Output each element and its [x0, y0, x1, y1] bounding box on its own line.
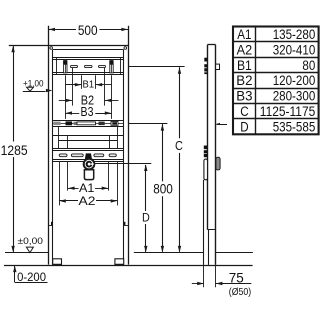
dimension C top extension: [128, 66, 184, 68]
svg-text:120-200: 120-200: [273, 73, 316, 88]
frame left upright outer line: [48, 26, 50, 265]
bolt centre extension line right (B3): [111, 75, 113, 119]
drain rail top lines: [53, 148, 124, 150]
fixing bolt right head: [109, 60, 113, 64]
crossbar black slot a: [53, 122, 60, 126]
B2 extension line left: [72, 68, 74, 106]
fixing bolt left head: [63, 60, 67, 64]
level mark +1,00 line: [23, 91, 46, 93]
dimension B3 line: [65, 113, 79, 115]
svg-text:75: 75: [229, 270, 244, 285]
frame top-left corner hole: [50, 47, 53, 50]
crossbar black slot c: [99, 122, 105, 126]
drain level line: [95, 163, 151, 165]
svg-text:1125-1175: 1125-1175: [260, 104, 316, 119]
dimension 500 line: [48, 29, 76, 31]
washbasin rail top lines: [53, 57, 124, 59]
dimension B1 arrows: [75, 83, 82, 86]
crossbar slot box outline: [111, 122, 118, 126]
frame top crossbar inner line: [53, 49, 124, 51]
table row lines: [233, 41, 319, 43]
svg-text:C: C: [175, 139, 183, 153]
svg-text:A2: A2: [79, 194, 96, 208]
left foot plate: [53, 259, 62, 265]
svg-text:D: D: [142, 210, 150, 224]
frame right upright inner line: [123, 50, 125, 265]
svg-text:D: D: [240, 120, 249, 135]
svg-text:500: 500: [78, 23, 98, 38]
svg-text:80: 80: [302, 58, 315, 73]
svg-text:C: C: [240, 104, 249, 119]
right strut lines: [117, 126, 119, 148]
right foot plate: [115, 259, 124, 265]
dimension 1285 arrows: [11, 46, 14, 53]
drain socket outer ring: [84, 159, 95, 170]
svg-text:535-585: 535-585: [273, 120, 316, 135]
side wall arm stub: [217, 124, 228, 126]
left hanger strap: [67, 135, 69, 148]
svg-text:280-300: 280-300: [273, 89, 316, 104]
svg-text:±0,00: ±0,00: [18, 236, 44, 247]
dimension 800 arrows: [161, 124, 164, 131]
flush bracket crossbar top line: [53, 120, 124, 122]
dimension B1 line: [65, 84, 81, 86]
crossbar black slot d: [112, 122, 117, 124]
svg-text:800: 800: [153, 182, 173, 197]
side rail left edge: [207, 45, 209, 230]
dimension 75 arrows: [197, 282, 204, 285]
dimension C arrows: [178, 67, 181, 74]
rail slot 1: [71, 65, 78, 67]
finished floor line segments: [5, 252, 48, 254]
rail slot 3: [99, 65, 106, 67]
side drain elbow: [216, 157, 220, 170]
dimension 75 extension lines: [203, 265, 205, 287]
fixing bolt right shaft: [110, 64, 113, 73]
drain rail slot 3: [94, 154, 104, 157]
frame right upright outer line: [128, 26, 130, 265]
dimension D line: [145, 165, 147, 211]
floor range 0-200 leader: [14, 266, 16, 283]
side upper right tab: [216, 64, 220, 69]
table column separator: [255, 27, 257, 135]
frame left upright inner line: [52, 50, 54, 265]
B1 extension line left: [81, 75, 83, 89]
svg-text:B3: B3: [81, 105, 94, 119]
A2 extension line left: [59, 162, 61, 206]
B2 extension line right: [104, 68, 106, 106]
dimension 800 line: [162, 124, 164, 181]
frame top crossbar outer line: [9, 45, 128, 47]
right hanger strap: [109, 135, 111, 148]
svg-text:B3: B3: [236, 89, 252, 104]
fixing bolt left shaft: [64, 64, 67, 73]
svg-text:B1: B1: [83, 80, 95, 91]
dimension A1 arrows: [68, 187, 75, 190]
dimension A2 arrows: [59, 199, 66, 202]
A1 extension line left: [67, 162, 69, 191]
svg-text:1285: 1285: [1, 143, 28, 158]
washbasin rail bottom lines: [53, 72, 124, 74]
raw floor line: [4, 265, 253, 267]
dimension B3 arrows: [66, 111, 73, 114]
dimension 800 top extension: [128, 123, 167, 125]
level mark +1,00 triangle: [27, 87, 34, 91]
side drain pipe lower line: [203, 180, 205, 265]
svg-text:A2: A2: [237, 42, 253, 57]
drain socket inner: [86, 161, 93, 168]
dimension B2 arrows: [66, 99, 73, 102]
svg-text:B2: B2: [236, 73, 252, 88]
dimension 1285 line: [13, 46, 15, 141]
dimension 75 line: [192, 283, 204, 285]
crossbar grey slot: [74, 122, 79, 125]
bolt centre extension line left (B3): [65, 75, 67, 119]
drain rail bottom lines: [53, 159, 124, 161]
drain clamp: [85, 153, 92, 159]
svg-text:0-200: 0-200: [17, 270, 46, 284]
svg-text:B1: B1: [237, 58, 252, 73]
side leg joint: [207, 229, 215, 231]
dimension A2 line: [59, 200, 78, 202]
crossbar black slot b: [66, 121, 73, 125]
A1 extension line right: [108, 162, 110, 191]
rail slot 2: [85, 65, 93, 67]
svg-text:A1: A1: [237, 27, 251, 42]
drain rail slot 1: [59, 154, 67, 157]
side rail right edge: [215, 45, 217, 265]
dimension table frame: [233, 27, 319, 135]
level mark ±0,00 triangle: [26, 247, 33, 253]
A2 extension line right: [117, 162, 119, 206]
side upper clamp serrations: [204, 58, 207, 62]
drain rail slot 2: [71, 154, 83, 157]
drain elbow body: [84, 170, 93, 180]
svg-text:A1: A1: [79, 181, 95, 195]
mid crossbar line 1: [53, 135, 124, 137]
dimension A1 line: [68, 188, 79, 190]
frame top-right corner hole: [124, 47, 127, 50]
washbasin rail right end plate: [120, 58, 122, 75]
left leg joint: [48, 225, 53, 227]
dimension D arrows: [144, 165, 147, 172]
side rail top cap: [207, 44, 215, 46]
drain rail slot 4: [109, 154, 116, 157]
crossbar centre slot outline: [77, 122, 96, 125]
svg-text:320-410: 320-410: [273, 42, 316, 57]
side inner leg left edge: [208, 230, 210, 265]
mid crossbar line 2: [58, 140, 117, 142]
B1 extension line right: [95, 75, 97, 89]
level mark +1,00 arrow: [46, 89, 53, 92]
side lower clamp serrations: [204, 146, 207, 150]
svg-text:135-280: 135-280: [273, 27, 316, 42]
flush bracket crossbar mid line: [53, 123, 124, 125]
right leg joint: [124, 225, 129, 227]
flush bracket crossbar bottom line: [53, 126, 124, 128]
left strut lines: [58, 126, 60, 148]
dimension C line: [179, 67, 181, 138]
dimension B2 line: [59, 100, 73, 102]
side drain pipe upper section: [204, 159, 208, 180]
svg-text:(Ø50): (Ø50): [229, 286, 251, 298]
washbasin rail left end plate: [56, 58, 58, 75]
dimension 500 arrows: [49, 28, 56, 31]
